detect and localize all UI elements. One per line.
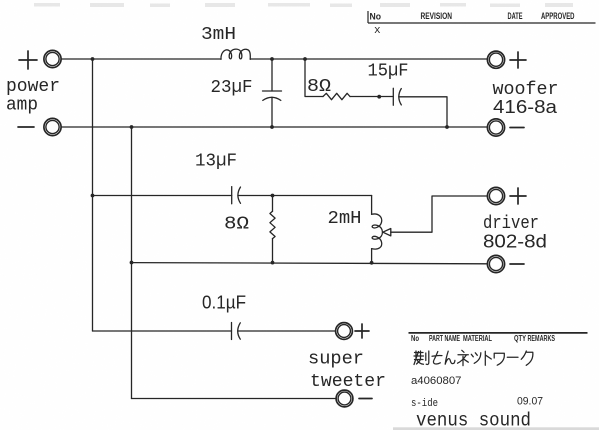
junction L2 bottom on driver - rail xyxy=(370,261,374,265)
svg-text:QTY: QTY xyxy=(514,334,526,343)
svg-text:802-8d: 802-8d xyxy=(483,232,547,252)
svg-text:s-ide: s-ide xyxy=(411,398,438,410)
label driver 802-8d xyxy=(483,214,547,252)
svg-text:09.07: 09.07 xyxy=(517,396,543,408)
wire tweeter rail from bus A through C4 xyxy=(93,330,232,332)
wire bus B vertical from - rail xyxy=(131,127,133,399)
inductor L2 2mH tapped xyxy=(372,196,391,263)
svg-text:8Ω: 8Ω xyxy=(307,77,331,97)
svg-text:3mH: 3mH xyxy=(201,25,236,45)
junction mid rail on bus A xyxy=(91,194,95,198)
svg-text:DATE: DATE xyxy=(508,11,523,22)
junction driver - rail on bus B xyxy=(130,261,134,265)
wire branch down to R1 xyxy=(305,59,323,97)
title text (Japanese) Ryuu-san network xyxy=(414,350,533,365)
terminal woofer - xyxy=(487,119,524,136)
svg-text:APPROVED: APPROVED xyxy=(541,11,575,22)
terminal driver - xyxy=(487,255,524,272)
junction bus B on - rail xyxy=(130,125,134,129)
capacitor C1 23uF shunt xyxy=(263,59,282,127)
svg-text:8Ω: 8Ω xyxy=(224,215,249,235)
title block parts table xyxy=(409,333,588,343)
svg-text:23µF: 23µF xyxy=(211,78,253,98)
wire R1 to C2 xyxy=(350,96,393,98)
svg-text:REVISION: REVISION xyxy=(421,11,453,22)
junction R1 to C2 node xyxy=(377,95,381,99)
inductor L1 3mH xyxy=(221,49,250,59)
svg-text:15µF: 15µF xyxy=(368,62,409,82)
svg-text:416-8a: 416-8a xyxy=(493,97,558,117)
svg-text:a4060807: a4060807 xyxy=(411,375,462,387)
terminal driver + xyxy=(487,187,526,204)
svg-text:13µF: 13µF xyxy=(195,152,237,172)
svg-text:2mH: 2mH xyxy=(328,209,362,229)
label woofer 416-8a xyxy=(493,80,559,117)
svg-text:power: power xyxy=(6,77,60,97)
wire driver minus rail from bus B xyxy=(132,263,488,264)
resistor R2 8ohm shunt xyxy=(270,196,275,263)
resistor R1 8ohm xyxy=(323,93,350,99)
wire mid rail from bus A through C3 xyxy=(93,195,232,197)
terminal power amp - xyxy=(18,118,61,135)
label power amp xyxy=(6,77,60,116)
svg-text:tweeter: tweeter xyxy=(310,372,386,392)
svg-text:venus sound: venus sound xyxy=(416,410,531,430)
svg-text:0.1µF: 0.1µF xyxy=(202,293,246,313)
wire from L2 tap to driver + xyxy=(391,196,488,232)
svg-text:x: x xyxy=(374,25,381,37)
terminal power amp + xyxy=(19,50,61,69)
wire top rail after L1 xyxy=(250,58,487,60)
terminal super tweeter - xyxy=(336,390,372,407)
svg-text:No: No xyxy=(411,334,419,343)
capacitor C4 0.1uF xyxy=(232,323,336,340)
junction R2 top on mid rail xyxy=(271,194,275,198)
wire minus rail from power amp - to woofer - xyxy=(61,126,487,128)
capacitor C2 15uF xyxy=(393,88,447,127)
svg-text:REMARKS: REMARKS xyxy=(528,334,556,343)
label super tweeter xyxy=(308,350,386,393)
wire top rail from power amp + to woofer + xyxy=(61,58,221,60)
junction C2 branch on - rail xyxy=(445,125,449,129)
junction bus A on + rail xyxy=(91,57,95,61)
junction R2 bottom on driver - rail xyxy=(271,261,275,265)
svg-text:amp: amp xyxy=(6,96,38,116)
terminal woofer + xyxy=(487,51,526,68)
terminal super tweeter + xyxy=(336,323,369,340)
svg-text:super: super xyxy=(308,350,364,370)
junction R1 branch on + rail xyxy=(303,57,307,61)
svg-text:PART NAME: PART NAME xyxy=(429,334,460,343)
svg-text:MATERIAL: MATERIAL xyxy=(463,334,492,343)
junction C1 bottom on - rail xyxy=(270,125,274,129)
capacitor C3 13uF xyxy=(232,187,372,204)
wire bus A vertical from + rail xyxy=(92,59,94,331)
junction C1 top on + rail xyxy=(270,57,274,61)
wire tweeter minus rail from bus B xyxy=(132,398,336,400)
revision table header xyxy=(368,11,596,37)
svg-text:No: No xyxy=(370,12,382,23)
